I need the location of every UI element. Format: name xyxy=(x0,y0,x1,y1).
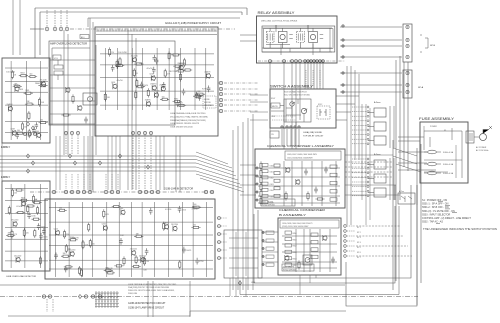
capacitor C120 xyxy=(304,169,308,176)
resistor R141 xyxy=(8,206,10,215)
svg-text:10/16: 10/16 xyxy=(41,227,45,229)
connector pin P43 xyxy=(64,190,67,193)
svg-text:FU60x 6.3A: FU60x 6.3A xyxy=(443,151,454,154)
wire vertical bus mid-right group xyxy=(233,114,253,290)
svg-text:S502 : TAP AC - AS: S502 : TAP AC - AS xyxy=(422,221,443,224)
svg-text:10/16: 10/16 xyxy=(182,209,186,211)
wire pin drop xyxy=(60,10,62,27)
svg-text:C663: C663 xyxy=(270,184,274,186)
connector pin P11 xyxy=(64,131,67,134)
connector pin P13 xyxy=(76,131,79,134)
connector pin P49 xyxy=(110,190,113,193)
switch S510 rotary chem B xyxy=(303,255,312,265)
svg-text:A 2xxx: A 2xxx xyxy=(374,101,381,104)
resistor R185 xyxy=(260,175,262,184)
connector pin P81 xyxy=(342,84,344,86)
svg-text:2SC2240: 2SC2240 xyxy=(153,91,160,93)
switch CN box xyxy=(270,131,279,138)
wire dash-dot out xyxy=(224,82,258,84)
svg-text:POWER: POWER xyxy=(430,126,437,128)
svg-text:560: 560 xyxy=(59,207,62,209)
resistor R126 xyxy=(38,98,40,107)
resistor R119 xyxy=(177,104,186,106)
connector pin P16 xyxy=(143,131,146,134)
connector pin P67 xyxy=(98,295,101,298)
resistor R166 xyxy=(81,268,83,277)
connector pin P75 xyxy=(256,199,258,201)
capacitor C103 xyxy=(140,82,144,89)
wire bottom verticals to base line xyxy=(148,281,190,317)
resistor R170 xyxy=(114,265,123,267)
transistor Q121 xyxy=(285,255,289,261)
wire pin drop xyxy=(54,10,56,27)
junction xyxy=(146,165,149,169)
svg-text:AC POWER: AC POWER xyxy=(476,146,487,149)
svg-text:C656,C658,C660 C664,C668 2200/: C656,C658,C660 C664,C668 2200/71 xyxy=(282,223,312,225)
capacitor C108 xyxy=(153,55,157,62)
resistor R104 xyxy=(147,88,149,97)
resistor R181 xyxy=(63,230,65,239)
svg-text:2SA970: 2SA970 xyxy=(204,70,210,73)
relay assembly outer box xyxy=(257,16,338,63)
svg-text:Q607: Q607 xyxy=(20,199,24,201)
junction xyxy=(31,161,34,165)
connector pin P20 xyxy=(291,60,294,63)
connector pin P46 xyxy=(82,190,85,193)
junction xyxy=(73,161,76,165)
svg-text:LINE: LINE xyxy=(251,282,256,284)
svg-text:Q634: Q634 xyxy=(102,224,106,226)
resistor R129 xyxy=(28,76,37,78)
resistor R117 xyxy=(134,63,143,65)
svg-text:C661: C661 xyxy=(270,172,274,174)
switch S503 rotary xyxy=(290,102,294,106)
wire dash-dot out xyxy=(224,88,258,90)
connector pin P55 xyxy=(204,190,207,193)
connector pin P12 xyxy=(70,131,73,134)
transistor Q115 xyxy=(16,257,20,263)
wire bottom nested U 1 xyxy=(258,185,411,278)
resistor R167 xyxy=(65,244,67,253)
switch inner wires xyxy=(271,99,304,126)
wire left link xyxy=(1,143,3,181)
connector pin P86 xyxy=(262,255,264,257)
connector pin CN101-3 xyxy=(59,27,63,31)
svg-text:CONTROL AMP - (2) DIRECT - LIN: CONTROL AMP - (2) DIRECT - LINE DIRECT xyxy=(422,217,471,220)
capacitor C131 xyxy=(119,238,123,245)
svg-text:CHEMICAL CONDENSER L ASSEMB: CHEMICAL CONDENSER L ASSEMBLY xyxy=(267,144,334,148)
wire switch A to bus links xyxy=(336,96,359,120)
svg-text:B ASSEMBLY: B ASSEMBLY xyxy=(279,213,306,217)
wire chem L right exits xyxy=(345,155,400,195)
wire bottom nested U 2 xyxy=(254,206,395,283)
connector pin P51 xyxy=(138,190,141,193)
resistor R114 xyxy=(115,65,124,67)
resistor R132 xyxy=(25,103,34,105)
resistor R150 xyxy=(16,211,25,213)
capacitor C105 xyxy=(155,58,159,65)
resistor R135 xyxy=(21,122,23,131)
svg-text:S501-1 : SP-A OFF - ON: S501-1 : SP-A OFF - ON xyxy=(422,203,449,206)
connector pin P23 xyxy=(304,60,307,63)
transistor Q114 xyxy=(8,106,12,112)
svg-text:2SC2240: 2SC2240 xyxy=(40,80,47,82)
resistor R120 xyxy=(176,70,185,72)
svg-text:S1: S1 xyxy=(444,130,446,132)
resistor R176 xyxy=(64,266,73,268)
capacitor C102 xyxy=(111,65,115,72)
svg-text:2SA970: 2SA970 xyxy=(7,103,13,106)
connector pin P37 xyxy=(281,126,283,128)
svg-text:SP 2: SP 2 xyxy=(357,232,361,234)
svg-text:S512: S512 xyxy=(318,104,322,106)
connector pin P33 xyxy=(406,55,409,58)
connector pin P9 xyxy=(219,103,222,106)
resistor R116 xyxy=(173,65,182,67)
resistor R157 xyxy=(298,260,300,269)
svg-text:G10B OVER LOAD DETECTOR: G10B OVER LOAD DETECTOR xyxy=(6,275,36,278)
switch A assembly box xyxy=(270,89,336,128)
wire to CN101 xyxy=(30,28,44,30)
svg-text:47/50: 47/50 xyxy=(199,261,203,263)
transistor Q106 xyxy=(152,85,156,91)
svg-text:2SC2240: 2SC2240 xyxy=(139,255,146,257)
svg-text:D8RL-0804 1/2Z RY501,RY50: D8RL-0804 1/2Z RY501,RY504 49P(S)S xyxy=(261,20,298,22)
capacitor C129 xyxy=(149,208,153,215)
svg-text:R637: R637 xyxy=(70,237,74,239)
svg-text:R682: R682 xyxy=(174,98,178,100)
wire chem B left feeds xyxy=(262,232,278,262)
switch S506 rotary xyxy=(301,108,306,113)
resistor R106 xyxy=(136,79,138,88)
resistor R190 xyxy=(61,114,70,116)
transistor Q123 xyxy=(173,226,177,232)
svg-text:G10A 2SA904A G10A,G10B 2SC22: G10A 2SA904A G10A,G10B 2SC2240 xyxy=(170,112,206,115)
svg-text:G10B 2SD669 2SC2500: G10B 2SD669 2SC2500 xyxy=(170,127,193,129)
resistor R113 xyxy=(168,51,170,60)
connector pin P18 xyxy=(269,60,272,63)
svg-text:A 2xxx: A 2xxx xyxy=(374,153,381,156)
capacitor C123 xyxy=(331,257,335,264)
resistor R165 xyxy=(191,226,200,228)
svg-text:G10B-1049 PROTECTION CIRCUIT: G10B-1049 PROTECTION CIRCUIT xyxy=(128,303,166,305)
resistor R136 xyxy=(39,122,48,124)
svg-text:100: 100 xyxy=(14,193,17,195)
small boxed label ARC xyxy=(80,35,89,39)
svg-text:2SC2240: 2SC2240 xyxy=(11,220,18,222)
relay bottom dash-dot xyxy=(258,60,345,62)
power supply circuit box xyxy=(95,27,218,136)
resistor R174 xyxy=(134,235,143,237)
svg-text:SP-B: SP-B xyxy=(430,45,436,47)
resistor R107 xyxy=(133,68,135,77)
svg-text:R653: R653 xyxy=(20,73,24,75)
svg-text:EMBLY: EMBLY xyxy=(1,175,10,179)
svg-text:RELAY ASSEMBLY: RELAY ASSEMBLY xyxy=(258,11,296,15)
wire bottom bus 294 xyxy=(240,206,399,295)
resistor R168 xyxy=(143,257,145,266)
connector block CN-B xyxy=(403,70,412,98)
wire left-to-power links xyxy=(50,60,95,124)
resistor R187 xyxy=(260,189,262,198)
svg-text:S1 : POWER OFF - ON: S1 : POWER OFF - ON xyxy=(422,199,447,202)
wire bottom nested U 3 xyxy=(346,185,417,306)
connector pin P31 xyxy=(406,38,409,41)
wire left verticals top xyxy=(13,0,20,55)
svg-text:2SB-D126 1S2473 G10B,G10B: 2SB-D126 1S2473 G10B,G10B 1SS2 G10A HZ6B… xyxy=(128,289,175,292)
connector pin P19 xyxy=(283,60,286,63)
svg-text:2SB649A(2SA904) 2SD669(2SC1885: 2SB649A(2SA904) 2SD669(2SC1885) xyxy=(170,119,206,122)
capacitor C128 xyxy=(182,247,186,254)
connector pin P47 xyxy=(88,190,91,193)
resistor R108 xyxy=(193,95,202,97)
wire top bus 3 xyxy=(88,18,240,27)
svg-text:Q638: Q638 xyxy=(11,129,15,131)
svg-text:RY602 49P(S)S: RY602 49P(S)S xyxy=(283,270,297,272)
connector pin P62 xyxy=(218,257,221,260)
svg-text:SP 1: SP 1 xyxy=(357,227,361,229)
wire to CN-A xyxy=(340,26,402,28)
protection circuit box xyxy=(45,199,215,279)
junction xyxy=(118,154,121,158)
resistor R186 xyxy=(260,182,262,191)
wire drops below power box xyxy=(66,135,151,190)
resistor R109 xyxy=(119,57,121,66)
svg-text:560: 560 xyxy=(17,130,20,132)
connector pin P53 xyxy=(150,190,153,193)
connector pin P44 xyxy=(70,190,73,193)
switch S502 tap box xyxy=(398,193,415,204)
resistor R180 xyxy=(103,209,105,218)
wire relay-switch vertical dashes xyxy=(306,70,320,86)
svg-text:SWITCH A ASSEMBLY: SWITCH A ASSEMBLY xyxy=(270,85,314,89)
transistor Q111 xyxy=(15,86,19,92)
svg-text:47u/50: 47u/50 xyxy=(116,80,123,82)
AC plug xyxy=(474,126,492,141)
chem B header box xyxy=(280,220,339,228)
chem L header box xyxy=(285,151,341,160)
transistor Q117 xyxy=(22,201,26,207)
svg-text:G10B-1047 LAMP DRIVE CIRCUIT: G10B-1047 LAMP DRIVE CIRCUIT xyxy=(128,307,165,310)
svg-text:SP 7: SP 7 xyxy=(357,257,361,259)
driver assembly box lower xyxy=(2,181,50,271)
svg-text:47u/50: 47u/50 xyxy=(179,63,186,65)
junction diamond B out xyxy=(238,281,241,285)
resistor R143 xyxy=(6,235,15,237)
svg-text:(2X16) C652,C654 100/50 63WV: (2X16) C652,C654 100/50 63WV xyxy=(282,226,309,228)
svg-text:TOP DELET CIRCUIT: TOP DELET CIRCUIT xyxy=(303,136,324,138)
resistor R155 xyxy=(285,191,287,200)
svg-text:10/16: 10/16 xyxy=(31,216,35,218)
capacitor C119 xyxy=(42,228,46,235)
resistor R115 xyxy=(173,100,182,102)
svg-text:S507: S507 xyxy=(271,98,275,100)
connector pin P15 xyxy=(137,131,140,134)
svg-text:2SC2240: 2SC2240 xyxy=(14,255,21,257)
resistor R112 xyxy=(109,47,111,56)
capacitor C126 xyxy=(54,253,58,260)
connector pin P41 xyxy=(298,126,300,128)
resistor R101 xyxy=(116,60,118,69)
resistor R158 xyxy=(179,260,181,269)
resistor R110 xyxy=(104,92,106,101)
capacitor C124 xyxy=(64,266,68,273)
resistor R179 xyxy=(61,255,70,257)
resistor R127 xyxy=(28,129,30,138)
wire pin drop xyxy=(66,10,68,27)
junction xyxy=(68,154,71,158)
wire dash-dot out xyxy=(224,110,258,112)
wire vertical bus right group xyxy=(393,56,421,305)
chem L mid column rects xyxy=(274,164,280,167)
connector pin P60 xyxy=(218,241,221,244)
svg-text:CHEMICAL CONDENSER: CHEMICAL CONDENSER xyxy=(279,208,326,212)
wire corner verticals extended xyxy=(395,185,417,205)
svg-text:MUTE: MUTE xyxy=(272,106,278,108)
connector pin P42 xyxy=(52,190,55,193)
resistor R121 xyxy=(136,86,145,88)
wire fuse feed diagonals xyxy=(393,148,421,172)
connector pin P30 xyxy=(406,25,409,28)
connector pin P34 xyxy=(406,71,409,74)
capacitor C101 xyxy=(162,82,166,89)
chemical condenser B box xyxy=(278,218,341,275)
resistor R111 xyxy=(171,54,180,56)
svg-text:SP 6: SP 6 xyxy=(357,252,361,254)
lamp drive sub box xyxy=(224,230,262,278)
svg-text:AMP OVER LOAD DETECTOR: AMP OVER LOAD DETECTOR xyxy=(50,43,87,46)
wire to CN-A xyxy=(340,45,402,47)
resistor R140 xyxy=(11,229,13,238)
svg-text:FU60x 6.3A: FU60x 6.3A xyxy=(443,172,454,175)
resistor R189 xyxy=(72,94,74,103)
connector pin P69 xyxy=(29,133,32,136)
fuse F601 xyxy=(424,150,441,154)
resistor R137 xyxy=(13,85,22,87)
svg-text:47u/50: 47u/50 xyxy=(192,208,199,210)
switch A inner dots xyxy=(272,116,296,120)
transistor Q105 xyxy=(154,92,158,98)
svg-text:Q666: Q666 xyxy=(119,208,123,210)
svg-text:100/25: 100/25 xyxy=(186,250,191,252)
resistor R172 xyxy=(106,272,115,274)
wire mid band diagonals xyxy=(196,156,240,184)
switch S507 mute box xyxy=(271,103,280,108)
svg-text:220: 220 xyxy=(66,234,69,236)
capacitor C115 xyxy=(35,122,39,129)
wire pin drop xyxy=(46,10,48,27)
wire power box left vertical pair xyxy=(90,18,93,192)
wire dash-dot out xyxy=(224,104,258,106)
resistor R151 xyxy=(32,218,41,220)
svg-text:G10A 2SB555 2SD826 1S2473: G10A 2SB555 2SD826 1S2473 xyxy=(170,122,200,125)
connector pin P70 xyxy=(34,133,37,136)
resistor R142 xyxy=(20,199,29,201)
junction xyxy=(98,161,101,165)
wire to CN-A xyxy=(340,39,402,41)
svg-text:C662: C662 xyxy=(270,178,274,180)
junction xyxy=(26,169,29,173)
transistor Q128 xyxy=(132,250,136,256)
svg-text:SP 5: SP 5 xyxy=(357,247,361,249)
wires into fuse box xyxy=(398,137,436,170)
svg-text:C660: C660 xyxy=(270,165,274,167)
connector pin P28 xyxy=(319,60,322,63)
svg-text:FU60x 6.3A: FU60x 6.3A xyxy=(443,163,454,166)
connector pin P84 xyxy=(262,239,264,241)
transistor Q116 xyxy=(13,221,17,227)
overload detector left parts xyxy=(52,48,90,125)
relay inner wiring xyxy=(264,25,334,52)
connector pin P79 xyxy=(342,56,344,58)
transistor Q113 xyxy=(37,132,41,138)
chem L structured rows xyxy=(258,161,340,206)
connector pin P38 xyxy=(286,126,288,128)
resistor R162 xyxy=(89,239,91,248)
wire to CN-B xyxy=(340,84,402,86)
wire dash-dot bus xyxy=(70,28,235,30)
junction xyxy=(26,122,29,126)
svg-text:560: 560 xyxy=(40,120,43,122)
speaker selector group B xyxy=(352,158,394,200)
power transformer T601 xyxy=(466,131,474,143)
svg-text:245C 1902PS: 245C 1902PS xyxy=(262,202,274,204)
connector pin P10 xyxy=(219,109,222,112)
wire switch A left feeds xyxy=(250,95,268,120)
amp overload detector box xyxy=(49,41,175,125)
connector pin P65 xyxy=(84,295,87,298)
wire dash-dot out xyxy=(224,93,258,95)
svg-text:245C 1902PS: 245C 1902PS xyxy=(283,267,295,269)
capacitor C121 xyxy=(314,187,318,194)
resistor R152 xyxy=(37,206,39,215)
svg-text:A10: A10 xyxy=(81,36,84,39)
svg-text:2SA970: 2SA970 xyxy=(106,267,114,270)
connector pin P87 xyxy=(262,263,264,265)
relay inner wiring xyxy=(262,25,332,55)
capacitor C107 xyxy=(195,92,199,99)
wire dash-dot out xyxy=(224,99,258,101)
svg-text:H53 ONLY: H53 ONLY xyxy=(204,105,213,107)
svg-text:Q618: Q618 xyxy=(149,74,153,76)
connector pin P24 xyxy=(307,60,310,63)
connector pin P73 xyxy=(256,183,258,185)
svg-text:100 1/4W: 100 1/4W xyxy=(6,72,15,74)
resistor R178 xyxy=(112,205,121,207)
junction xyxy=(31,126,34,130)
capacitor C110 xyxy=(176,100,180,107)
svg-text:G10A(,24B) SOUND: G10A(,24B) SOUND xyxy=(303,131,323,134)
resistor R105 xyxy=(160,98,169,100)
connector pin P45 xyxy=(76,190,79,193)
transistor Q103 xyxy=(179,65,183,71)
connector pin P8 xyxy=(219,98,222,101)
driver assembly box upper xyxy=(2,58,50,143)
switch A inner box xyxy=(284,99,311,122)
svg-text:560: 560 xyxy=(193,224,196,226)
resistor R173 xyxy=(82,240,84,249)
resistor R175 xyxy=(163,222,165,231)
relay inner box xyxy=(262,26,335,52)
connector pin P36 xyxy=(406,90,409,93)
svg-text:FOR SE: FOR SE xyxy=(204,102,211,104)
connector pin P58 xyxy=(218,225,221,228)
wire chem L left feeds xyxy=(240,165,256,195)
connector pin P74 xyxy=(256,191,258,193)
fuse box inner wiring xyxy=(424,128,462,178)
connector pin P40 xyxy=(294,126,296,128)
resistor R184 xyxy=(260,168,262,177)
